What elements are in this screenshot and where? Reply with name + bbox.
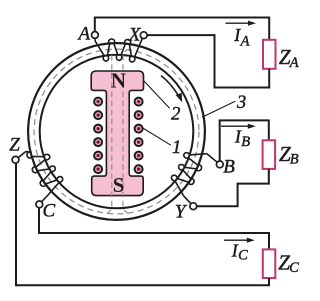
svg-text:X: X: [128, 24, 142, 45]
lead wire terminal C to coil: [42, 195, 49, 202]
current arrow IA: [226, 21, 257, 26]
svg-text:C: C: [238, 248, 248, 264]
svg-text:A: A: [289, 55, 299, 71]
lead wire terminal Z to coil: [18, 151, 26, 157]
stator coil C-Z (phase C winding): [26, 151, 63, 194]
wire bottom horizontal ZC to Z: [16, 284, 270, 286]
rotor winding cross-section circles, left column: [94, 98, 102, 174]
wire X branch vertical: [214, 35, 216, 88]
terminal Y: [190, 203, 197, 210]
stator ring inner circle: [40, 55, 194, 209]
leader line for label 3: [202, 101, 235, 117]
leader line for label 1: [143, 128, 171, 145]
terminal A: [92, 32, 99, 39]
svg-text:S: S: [113, 173, 125, 197]
lead wire terminal X to coil: [134, 38, 142, 57]
wire X horizontal: [147, 34, 216, 36]
wire top horizontal A to ZA: [94, 17, 269, 19]
svg-text:3: 3: [236, 93, 246, 113]
wire C down: [38, 208, 40, 233]
stator coil A-X (phase A winding): [95, 39, 135, 62]
wire bottom horizontal ZA to X branch: [215, 87, 271, 89]
svg-text:A: A: [240, 33, 250, 49]
svg-text:C: C: [289, 260, 299, 276]
lead wire terminal Y to coil: [184, 196, 191, 204]
wire C horizontal to ZC: [38, 232, 269, 234]
svg-text:C: C: [42, 201, 55, 222]
rotor magnet body (N-S pole piece): [91, 71, 143, 196]
wire ZB to Y (stepped): [197, 169, 269, 206]
svg-text:2: 2: [171, 105, 180, 125]
wire B horizontal to ZB: [219, 119, 269, 121]
svg-text:B: B: [290, 152, 299, 168]
dashed flux line right: [123, 49, 131, 214]
dashed flux line left: [104, 49, 112, 214]
impedance ZB box: [263, 140, 276, 169]
impedance ZC box: [263, 249, 276, 278]
current arrow IC: [224, 238, 255, 243]
wire ZC down: [268, 278, 270, 285]
wire down to ZB: [268, 120, 270, 141]
wire A up: [94, 18, 96, 32]
wire down to ZA: [268, 17, 270, 40]
svg-text:B: B: [241, 134, 250, 150]
svg-text:B: B: [223, 156, 235, 177]
wire B up: [219, 120, 221, 161]
terminal Z: [12, 156, 19, 163]
impedance ZA box: [263, 40, 276, 69]
wire Z vertical: [15, 163, 17, 286]
current arrow IB: [221, 124, 256, 129]
lead wire terminal A to coil: [94, 38, 96, 41]
terminal C: [36, 201, 43, 208]
magnetic core dashed circle (net 3): [34, 49, 199, 214]
rotation direction arrow: [161, 76, 182, 103]
stator ring outer circle: [28, 43, 205, 220]
terminal X: [140, 32, 147, 39]
svg-text:1: 1: [172, 138, 181, 158]
lead wire terminal B to coil: [207, 154, 218, 163]
rotor winding cross-section circles, right column: [135, 98, 143, 174]
stator coil B-Y (phase B winding): [171, 153, 206, 196]
wire ZA down: [268, 69, 270, 88]
terminal B: [216, 161, 223, 168]
svg-text:Z: Z: [9, 135, 20, 156]
svg-text:A: A: [76, 24, 90, 45]
wire down to ZC: [268, 232, 270, 249]
leader line for label 2: [143, 80, 170, 108]
svg-text:N: N: [111, 69, 126, 93]
